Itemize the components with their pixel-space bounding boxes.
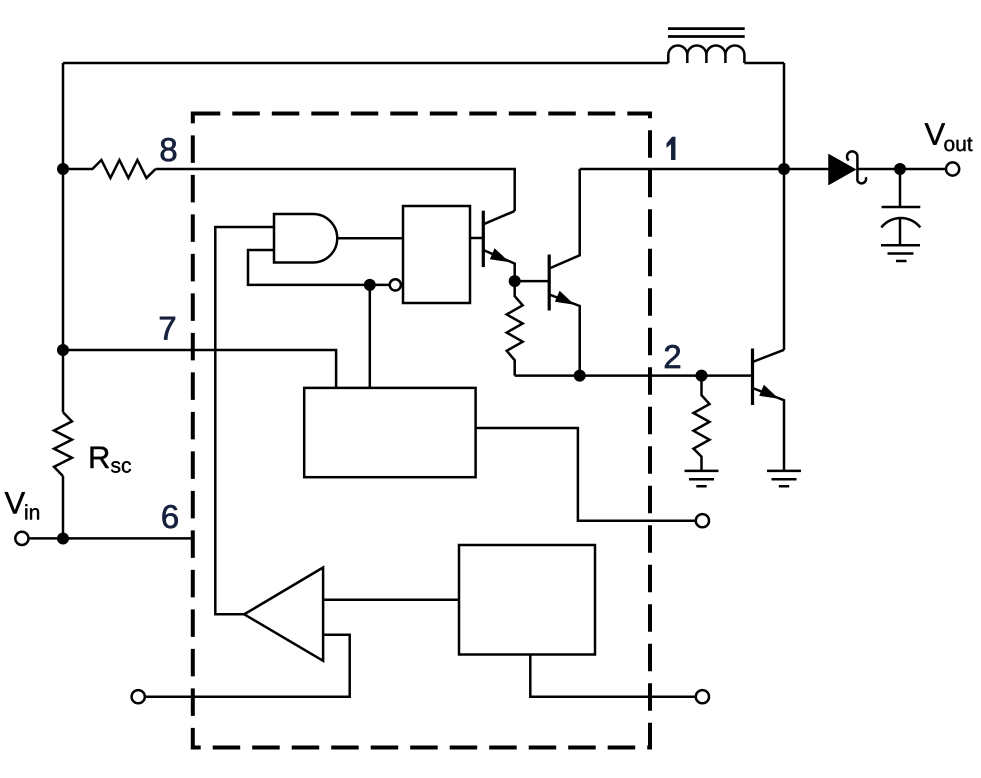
junction node pin7/rail <box>57 344 69 356</box>
terminal timing cap <box>696 514 709 527</box>
resistor external base pulldown <box>694 376 710 471</box>
resistor R8 (Ipk sense) <box>63 160 156 178</box>
wire left vertical rail <box>62 63 65 412</box>
transistor Q2 emitter arrow <box>555 291 575 305</box>
resistor internal emitter <box>507 281 523 376</box>
oscillator box <box>304 388 475 477</box>
terminal Vin <box>15 532 28 545</box>
label Vin <box>5 492 25 513</box>
wire latch output to Q1 base <box>470 237 483 240</box>
junction node Vout/cap <box>894 163 906 175</box>
transistor Q3 bar <box>751 349 754 406</box>
transistor Q1 bar <box>482 211 485 267</box>
label Vout <box>925 123 945 144</box>
inductor L1 <box>668 45 744 63</box>
junction node pin8/rail <box>57 163 69 175</box>
pin label 8 <box>161 138 176 161</box>
comparator U3 <box>244 568 323 661</box>
wire top rail right segment <box>744 62 784 65</box>
label Rsc subscript <box>111 461 131 473</box>
junction node Q3 base <box>696 370 708 382</box>
transistor Q3 collector <box>753 350 785 362</box>
pin label 1 <box>667 137 675 160</box>
wire oscillator output to terminal <box>476 428 696 521</box>
latch box <box>403 206 470 303</box>
pin label 7 <box>160 317 175 340</box>
AND gate U2 <box>274 214 337 263</box>
label Rsc <box>91 447 109 468</box>
diode D1 <box>829 154 857 185</box>
wire pin 1 from Q2 collector to Vout <box>580 168 947 171</box>
wire reference ground to terminal <box>530 655 696 697</box>
wire latch bubble node down to oscillator <box>369 285 372 388</box>
junction node inductor/diode <box>778 163 790 175</box>
dashed IC boundary box <box>193 114 650 748</box>
reference box <box>459 545 595 655</box>
wire AND output to latch <box>337 237 403 240</box>
transistor Q1 collector <box>483 211 514 224</box>
transistor Q3 emitter arrow <box>759 385 779 399</box>
ground for Q3 emitter <box>767 471 801 486</box>
wire right vertical from inductor to Q3 collector <box>783 63 786 350</box>
label Vout subscript <box>944 137 972 151</box>
transistor Q3 emitter <box>753 388 785 471</box>
transistor Q2 collector <box>549 169 580 269</box>
wire AND lower input loop from latch bubble <box>248 250 390 285</box>
wire pin 6 <box>30 537 193 540</box>
inductor core lines <box>668 29 745 37</box>
wire top rail left segment <box>63 62 668 65</box>
terminal pin 5 <box>132 690 145 703</box>
transistor Q1 emitter arrow <box>490 248 510 262</box>
ground for base resistor <box>685 471 719 486</box>
latch inverting bubble <box>390 279 401 290</box>
diode D1 cathode curl <box>847 151 866 183</box>
junction node Q1 emitter <box>509 275 521 287</box>
junction node pin6/Vin <box>57 533 69 545</box>
wire comparator noninverting input from reference <box>323 599 459 602</box>
transistor Q1 emitter <box>483 250 514 281</box>
pin label 2 <box>665 345 680 368</box>
terminal Vout <box>946 162 959 175</box>
wire pin 2 <box>515 374 753 377</box>
wire Rsc to pin6 node <box>62 476 65 538</box>
label Vin subscript <box>25 504 39 519</box>
capacitor Cout curved plate <box>881 218 920 228</box>
junction node Q2 emitter pin2 <box>574 370 586 382</box>
wire comparator inverting input to pin 5 terminal <box>145 635 350 697</box>
wire pin 7 <box>63 350 336 388</box>
transistor Q2 bar <box>548 255 551 311</box>
wire pin 8 to Q1 collector <box>156 169 515 211</box>
capacitor Cout stem and plates <box>882 169 921 245</box>
resistor Rsc <box>54 412 72 476</box>
wire comparator output to AND input <box>215 227 274 614</box>
transistor Q2 emitter <box>549 295 580 376</box>
junction node latch bubble <box>364 279 376 291</box>
ground for Cout <box>881 245 920 261</box>
wire Q1 emitter to Q2 base <box>515 280 550 283</box>
terminal pin 4 <box>696 690 709 703</box>
pin label 6 <box>163 505 178 528</box>
